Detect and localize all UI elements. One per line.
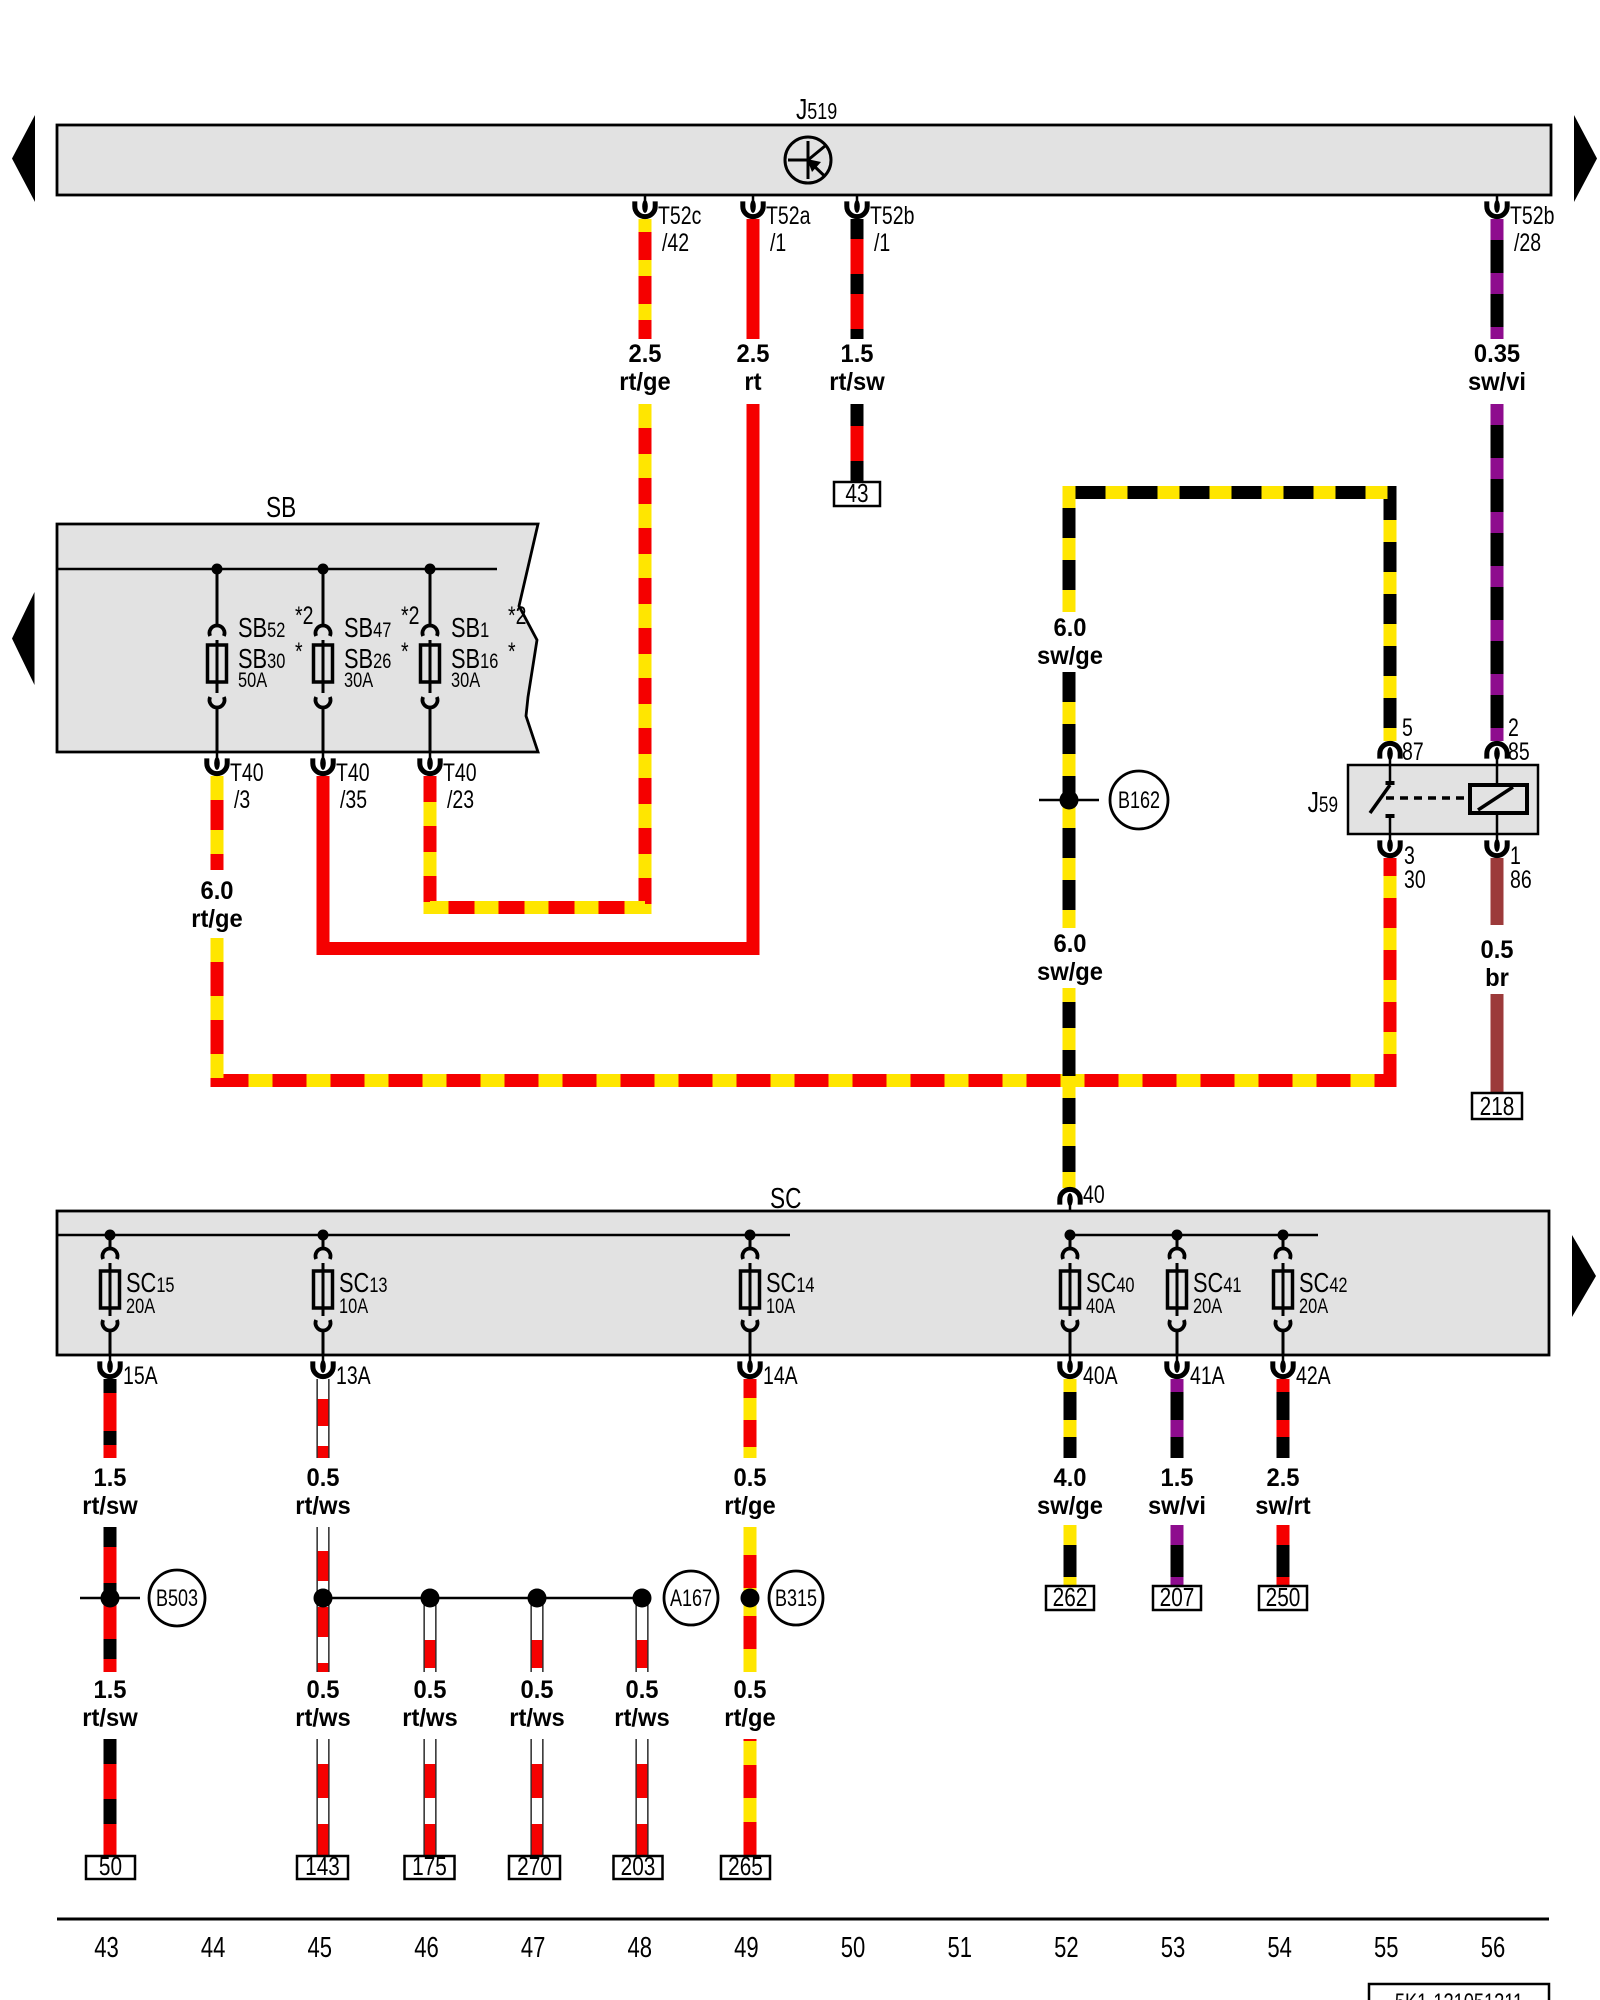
svg-text:1.5: 1.5 <box>93 1676 126 1704</box>
svg-text:50: 50 <box>841 1932 866 1964</box>
svg-text:B162: B162 <box>1118 788 1160 814</box>
svg-text:203: 203 <box>621 1852 656 1881</box>
svg-text:rt/ge: rt/ge <box>724 1492 775 1520</box>
svg-text:1.5: 1.5 <box>840 340 873 368</box>
svg-text:51: 51 <box>947 1932 972 1964</box>
svg-text:0.5: 0.5 <box>1480 936 1513 964</box>
svg-text:T40: T40 <box>336 759 370 787</box>
svg-text:SB1: SB1 <box>451 612 489 643</box>
svg-text:/42: /42 <box>662 229 689 257</box>
svg-text:250: 250 <box>1266 1583 1301 1612</box>
svg-text:rt/ws: rt/ws <box>614 1704 669 1732</box>
svg-text:270: 270 <box>517 1852 552 1881</box>
svg-text:*2: *2 <box>295 602 313 630</box>
svg-text:2.5: 2.5 <box>628 340 661 368</box>
svg-text:/3: /3 <box>234 786 250 814</box>
svg-text:B315: B315 <box>775 1586 817 1612</box>
svg-text:0.5: 0.5 <box>625 1676 658 1704</box>
svg-text:rt/sw: rt/sw <box>82 1492 137 1520</box>
svg-text:218: 218 <box>1480 1092 1515 1121</box>
svg-text:/1: /1 <box>874 229 890 257</box>
svg-text:45: 45 <box>308 1932 333 1964</box>
svg-text:SC: SC <box>770 1181 801 1214</box>
svg-text:5K1-121051211: 5K1-121051211 <box>1395 1989 1523 2000</box>
svg-text:*: * <box>401 638 409 666</box>
svg-text:40A: 40A <box>1086 1294 1116 1317</box>
svg-text:262: 262 <box>1053 1583 1088 1612</box>
svg-text:*: * <box>295 638 303 666</box>
svg-text:47: 47 <box>521 1932 546 1964</box>
svg-text:rt/ge: rt/ge <box>191 905 242 933</box>
svg-text:30A: 30A <box>451 668 481 691</box>
svg-text:0.5: 0.5 <box>306 1676 339 1704</box>
svg-text:sw/vi: sw/vi <box>1468 368 1526 396</box>
svg-text:rt: rt <box>744 368 761 396</box>
svg-text:87: 87 <box>1402 738 1424 766</box>
svg-text:SB52: SB52 <box>238 612 285 643</box>
svg-text:br: br <box>1485 964 1509 992</box>
svg-text:T40: T40 <box>443 759 477 787</box>
svg-text:/1: /1 <box>770 229 786 257</box>
svg-text:85: 85 <box>1508 738 1530 766</box>
svg-text:rt/ws: rt/ws <box>402 1704 457 1732</box>
svg-text:56: 56 <box>1481 1932 1506 1964</box>
svg-text:0.35: 0.35 <box>1474 340 1520 368</box>
svg-text:175: 175 <box>412 1852 447 1881</box>
svg-text:4.0: 4.0 <box>1053 1464 1086 1492</box>
svg-text:20A: 20A <box>1193 1294 1223 1317</box>
svg-text:10A: 10A <box>339 1294 369 1317</box>
svg-text:T52a: T52a <box>766 202 811 230</box>
svg-text:86: 86 <box>1510 866 1532 894</box>
svg-text:rt/ws: rt/ws <box>295 1704 350 1732</box>
svg-text:rt/ge: rt/ge <box>724 1704 775 1732</box>
svg-text:T52c: T52c <box>658 202 701 230</box>
svg-text:sw/ge: sw/ge <box>1037 1492 1103 1520</box>
svg-text:30A: 30A <box>344 668 374 691</box>
svg-text:15A: 15A <box>123 1362 158 1390</box>
svg-text:6.0: 6.0 <box>1053 614 1086 642</box>
svg-text:6.0: 6.0 <box>200 877 233 905</box>
svg-text:sw/ge: sw/ge <box>1037 958 1103 986</box>
svg-text:50A: 50A <box>238 668 268 691</box>
svg-text:rt/sw: rt/sw <box>829 368 884 396</box>
svg-text:52: 52 <box>1054 1932 1079 1964</box>
svg-text:46: 46 <box>414 1932 439 1964</box>
svg-text:/28: /28 <box>1514 229 1541 257</box>
svg-text:43: 43 <box>845 479 868 508</box>
svg-text:1.5: 1.5 <box>1160 1464 1193 1492</box>
svg-text:50: 50 <box>99 1852 122 1881</box>
svg-text:20A: 20A <box>126 1294 156 1317</box>
svg-text:43: 43 <box>94 1932 119 1964</box>
svg-text:40: 40 <box>1083 1181 1105 1209</box>
svg-text:sw/ge: sw/ge <box>1037 642 1103 670</box>
svg-text:/23: /23 <box>447 786 474 814</box>
svg-text:A167: A167 <box>670 1586 712 1612</box>
svg-text:/35: /35 <box>340 786 367 814</box>
svg-text:rt/ws: rt/ws <box>509 1704 564 1732</box>
svg-text:*: * <box>508 638 516 666</box>
svg-text:6.0: 6.0 <box>1053 930 1086 958</box>
svg-text:40A: 40A <box>1083 1362 1118 1390</box>
svg-text:T40: T40 <box>230 759 264 787</box>
svg-text:*2: *2 <box>508 602 526 630</box>
svg-text:41A: 41A <box>1190 1362 1225 1390</box>
svg-text:207: 207 <box>1160 1583 1195 1612</box>
svg-text:10A: 10A <box>766 1294 796 1317</box>
svg-text:rt/ge: rt/ge <box>619 368 670 396</box>
svg-text:rt/sw: rt/sw <box>82 1704 137 1732</box>
svg-text:13A: 13A <box>336 1362 371 1390</box>
svg-text:sw/vi: sw/vi <box>1148 1492 1206 1520</box>
svg-text:0.5: 0.5 <box>520 1676 553 1704</box>
svg-text:T52b: T52b <box>1510 202 1554 230</box>
svg-text:49: 49 <box>734 1932 759 1964</box>
svg-text:0.5: 0.5 <box>413 1676 446 1704</box>
svg-text:SB: SB <box>266 490 296 523</box>
svg-text:0.5: 0.5 <box>306 1464 339 1492</box>
svg-text:143: 143 <box>305 1852 340 1881</box>
svg-text:265: 265 <box>728 1852 763 1881</box>
svg-text:48: 48 <box>627 1932 652 1964</box>
svg-text:*2: *2 <box>401 602 419 630</box>
svg-text:55: 55 <box>1374 1932 1399 1964</box>
svg-text:sw/rt: sw/rt <box>1255 1492 1310 1520</box>
svg-text:54: 54 <box>1267 1932 1292 1964</box>
svg-text:2.5: 2.5 <box>736 340 769 368</box>
svg-text:0.5: 0.5 <box>733 1464 766 1492</box>
svg-text:B503: B503 <box>156 1586 198 1612</box>
svg-text:42A: 42A <box>1296 1362 1331 1390</box>
svg-text:53: 53 <box>1161 1932 1186 1964</box>
svg-text:20A: 20A <box>1299 1294 1329 1317</box>
svg-text:rt/ws: rt/ws <box>295 1492 350 1520</box>
svg-text:44: 44 <box>201 1932 226 1964</box>
svg-text:SB47: SB47 <box>344 612 391 643</box>
svg-text:2.5: 2.5 <box>1266 1464 1299 1492</box>
svg-text:1.5: 1.5 <box>93 1464 126 1492</box>
svg-text:T52b: T52b <box>870 202 914 230</box>
svg-text:14A: 14A <box>763 1362 798 1390</box>
svg-text:30: 30 <box>1404 866 1426 894</box>
svg-text:0.5: 0.5 <box>733 1676 766 1704</box>
